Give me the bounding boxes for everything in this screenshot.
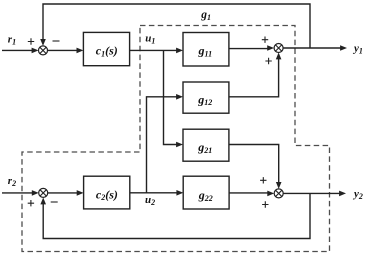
summing junction S3 <box>274 189 283 198</box>
summing junction S2 <box>274 44 283 53</box>
dashed boundary g1 region <box>22 26 330 252</box>
plus sign S3 top <box>260 177 266 183</box>
block g22 <box>183 176 229 209</box>
summing junction S4 <box>39 188 48 197</box>
wire g21 output down to S3 <box>229 145 282 189</box>
svg-text:c2(s): c2(s) <box>96 187 118 202</box>
plus sign S1 <box>28 38 34 44</box>
wire u1 branch down to g21 <box>164 50 184 147</box>
block c2 <box>84 176 130 209</box>
wire S2 to y1 <box>283 45 347 51</box>
plus sign S4 <box>28 200 34 206</box>
wire c2 to g22 (u2) <box>130 190 184 196</box>
wire g22 to S3 <box>229 191 274 197</box>
wire S4 to c2 <box>48 190 84 196</box>
wire feedback loop 1 <box>40 4 310 48</box>
summing junction S1 <box>39 46 48 55</box>
wire S3 to y2 <box>283 191 346 197</box>
plus sign S2 top <box>262 37 268 43</box>
block g21 <box>183 129 229 161</box>
wire g12 output up to S2 <box>229 53 282 97</box>
wire c1 to g11 <box>130 48 183 54</box>
wire feedback loop 2 <box>40 193 310 238</box>
plus sign S3 bottom <box>262 201 268 207</box>
wire r2 input <box>2 190 39 196</box>
minus sign S4 <box>51 201 58 203</box>
wire u2 branch up to g12 <box>147 94 184 193</box>
plus sign S2 bottom <box>265 58 271 64</box>
wire r1 input <box>2 48 39 54</box>
block c1 <box>83 32 129 65</box>
minus sign S1 <box>53 40 60 42</box>
wire g11 to S2 <box>229 45 274 51</box>
block g11 <box>183 33 229 67</box>
wire S1 to c1 <box>48 48 84 54</box>
svg-text:c1(s): c1(s) <box>96 44 118 59</box>
block g12 <box>183 82 229 113</box>
